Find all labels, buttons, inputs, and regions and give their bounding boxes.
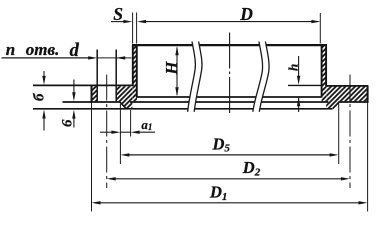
svg-text:D: D [239,4,253,24]
svg-text:отв.: отв. [26,40,60,59]
svg-text:6: 6 [59,119,75,127]
svg-text:H: H [162,61,181,76]
svg-text:б: б [31,93,47,101]
svg-text:h: h [285,64,300,71]
svg-text:n: n [6,40,15,59]
svg-text:d: d [70,41,80,61]
svg-text:S: S [113,4,123,24]
